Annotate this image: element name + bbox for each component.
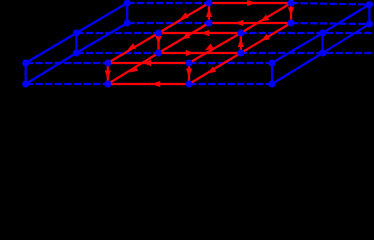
wire vertical back col1 [208, 3, 210, 23]
node mid-bottom 3 [319, 50, 326, 57]
node mid-bottom 2 [237, 50, 244, 57]
wire row back-top right [291, 3, 369, 5]
red edge diagonal bottom mid-front col2 [189, 53, 241, 84]
wire diagonal top mid-back col2 [241, 3, 291, 33]
node back-top 3 [366, 1, 373, 8]
red edge diagonal bottom back-mid col2 arrowhead [261, 34, 270, 41]
wire vertical front col0 [25, 63, 27, 84]
node mid-top 0 [73, 30, 80, 37]
node front-bottom 3 [269, 81, 276, 88]
wire row front-top [26, 62, 272, 64]
wire diagonal bottom mid-back col0 [76, 23, 127, 53]
red edge mid col1 downward [157, 33, 159, 53]
node back-bottom 3 [366, 21, 373, 28]
node mid-bottom 1 [155, 50, 162, 57]
node back-top 2 [288, 0, 295, 7]
red edge mid col2 upward [240, 33, 242, 53]
red edge diagonal top mid-front col2 [189, 33, 241, 63]
node front-bottom 0 [22, 81, 29, 88]
wire row front-bottom [26, 83, 272, 85]
red edge back col1 upward [208, 3, 210, 23]
wire diagonal top front-mid col1 [108, 33, 159, 63]
node back-bottom 0 [124, 20, 131, 27]
red edge back-top rightward arrowhead [247, 0, 256, 6]
wire vertical back col2 [290, 3, 292, 23]
wire diagonal top front-mid col3 [272, 33, 323, 63]
red edge front-bottom arrowhead (leftward) [152, 81, 161, 87]
red edge diagonal bottom back-mid col1 arrowhead [181, 32, 190, 39]
node back-top 0 [124, 0, 131, 7]
wire diagonal bottom mid-back col2 [241, 23, 291, 53]
wire vertical back col3 [368, 5, 370, 25]
red edge mid col1 downward arrowhead [155, 36, 161, 45]
node mid-bottom 0 [73, 50, 80, 57]
wire vertical mid col3 [322, 33, 324, 53]
wire diagonal top front-mid col0 [26, 33, 77, 63]
red edge mid-top leftward [159, 32, 241, 34]
wire row mid-top [76, 32, 374, 34]
red edge front-top rightward [108, 62, 189, 64]
red edge diagonal top back-mid col1 arrowhead [180, 12, 189, 19]
node front-bottom 2 [186, 81, 193, 88]
red edge diagonal bottom back-mid col2 [241, 23, 291, 53]
wire diagonal bottom front-mid col2 [189, 53, 241, 84]
red edge back-top rightward [209, 2, 291, 4]
node front-top 2 [186, 60, 193, 67]
red edge back-bottom leftward arrowhead [235, 20, 244, 26]
red edge diagonal top back-mid col1 [159, 3, 210, 33]
wire diagonal bottom front-mid col3 [272, 53, 323, 84]
wire vertical front col2 [188, 63, 190, 84]
wire diagonal top mid-back col3 [323, 5, 370, 34]
red edge diagonal top mid-front col1 arrowhead [127, 43, 136, 50]
red edge front col1 downward [107, 63, 109, 84]
wire diagonal top mid-back col1 [159, 3, 210, 33]
red edge front col2 downward [188, 63, 190, 84]
wire vertical mid col1 [157, 33, 159, 53]
red edge back col1 upward arrowhead [206, 9, 212, 17]
node back-top 1 [206, 0, 213, 7]
wire vertical front col3 [271, 63, 273, 84]
node front-bottom 1 [104, 81, 111, 88]
red edge mid col2 upward arrowhead [238, 39, 244, 48]
wire diagonal bottom mid-back col1 [159, 23, 210, 53]
wire diagonal bottom front-mid col1 [108, 53, 159, 84]
node mid-top 1 [155, 30, 162, 37]
red edge front-bottom rightward [108, 83, 189, 85]
wire vertical back col0 [126, 3, 128, 23]
red edge back-bottom leftward [209, 22, 291, 24]
red edge front col1 downward arrowhead [105, 71, 111, 80]
wire vertical mid col2 [240, 33, 242, 53]
node front-top 1 [104, 60, 111, 67]
node front-top 3 [269, 60, 276, 67]
red edge mid-bottom rightward arrowhead [186, 50, 195, 56]
red edge diagonal bottom mid-front col1 [108, 53, 159, 84]
red edge mid-top leftward arrowhead [201, 30, 210, 36]
red edge mid-bottom rightward [159, 52, 241, 54]
red edge back col2 downward [290, 3, 292, 23]
wire diagonal top mid-back col0 [76, 3, 127, 33]
wire diagonal bottom front-mid col0 [26, 53, 77, 84]
red edge back col2 downward arrowhead [288, 7, 294, 16]
wire row back-bottom right [291, 23, 369, 24]
wire diagonal bottom mid-back col3 [323, 24, 370, 53]
node mid-top 2 [237, 30, 244, 37]
red edge diagonal bottom mid-front col1 arrowhead [129, 65, 138, 72]
wire vertical front col1 [107, 63, 109, 84]
red edge front col2 downward arrowhead [186, 69, 192, 78]
wire row back-bottom [127, 22, 291, 24]
node back-bottom 2 [288, 20, 295, 27]
wire vertical mid col0 [75, 33, 77, 53]
red edge diagonal top back-mid col2 [241, 3, 291, 33]
red edge diagonal top mid-front col2 arrowhead [205, 43, 214, 50]
wire diagonal top front-mid col2 [189, 33, 241, 63]
red edge diagonal top back-mid col2 arrowhead [260, 15, 269, 22]
red edge diagonal bottom back-mid col1 [159, 23, 210, 53]
node front-top 0 [22, 60, 29, 67]
red edge diagonal top mid-front col1 [108, 33, 159, 63]
node back-bottom 1 [206, 20, 213, 27]
red edge diagonal bottom mid-front col2 arrowhead [207, 66, 216, 73]
node mid-top 3 [319, 30, 326, 37]
wire row back-top [127, 2, 291, 4]
red edge front-top arrowhead (leftward) [143, 60, 152, 66]
3D lattice diagram with red directed sub-lattice [0, 0, 374, 101]
wire row mid-bottom [76, 52, 374, 54]
